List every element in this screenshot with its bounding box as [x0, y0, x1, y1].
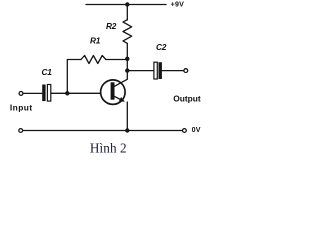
svg-text:R1: R1 [90, 36, 101, 46]
svg-text:+9V: +9V [171, 0, 185, 8]
transistor Q1 collector stroke [114, 79, 127, 86]
svg-text:C2: C2 [156, 42, 167, 52]
junction dot: R1 / R2 node [125, 57, 129, 61]
svg-text:Hình 2: Hình 2 [90, 140, 127, 155]
transistor Q1 base bar [111, 82, 115, 99]
wire: R2 bottom lead down to base node [126, 43, 128, 58]
resistor R2 [123, 20, 132, 44]
capacitor C1 (hollow right plate) [47, 85, 50, 102]
svg-text:0V: 0V [192, 126, 201, 134]
wire: C2 output lead [162, 70, 184, 72]
wire: 0V ground rail [23, 130, 183, 132]
junction dot: +9V rail / R2 [125, 2, 129, 6]
transistor Q1 (NPN) body circle [101, 80, 126, 105]
transistor Q1 emitter stroke [114, 96, 123, 100]
terminal: output [184, 69, 188, 73]
terminal: 0V right [183, 129, 187, 133]
wire: collector lead of Q1 up to node [126, 71, 128, 80]
wire: C2 coupling lead from collector node [127, 70, 153, 72]
junction dot: collector / C2 node [125, 68, 129, 72]
capacitor C2 (solid right plate) [159, 62, 162, 79]
wire: R1 left lead with corner down to base wire [67, 60, 81, 94]
wire: input lead to C1 [23, 92, 42, 94]
capacitor C1 (solid left plate) [42, 85, 45, 102]
wire: emitter lead of Q1 down to 0V rail [126, 102, 128, 131]
transistor Q1 emitter arrowhead [119, 97, 125, 102]
junction dot: emitter / 0V rail [125, 128, 129, 132]
junction dot: C1 / R1 base node [65, 91, 69, 95]
resistor R1 [81, 56, 106, 64]
wire: C1 to base junction and base of Q1 [51, 92, 100, 94]
svg-text:Input: Input [10, 103, 33, 113]
wire: +9V supply rail [86, 4, 166, 6]
svg-text:R2: R2 [106, 21, 117, 31]
wire: R1 right lead [106, 59, 127, 61]
capacitor C2 (hollow left plate) [154, 62, 157, 79]
terminal: input [19, 92, 23, 96]
svg-text:C1: C1 [42, 67, 53, 77]
terminal: 0V left [19, 129, 23, 133]
svg-text:Output: Output [173, 93, 201, 103]
wire: R2 top lead from +9V rail [126, 5, 128, 21]
wire: node between R1/R2 junction and collector branch [126, 59, 128, 71]
